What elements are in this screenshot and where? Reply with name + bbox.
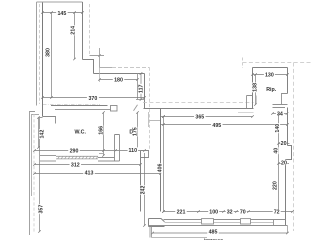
door pier left of corridor (115, 135, 120, 162)
wall left inner line (42, 2, 44, 117)
entrance threshold line (152, 237, 208, 239)
svg-text:166: 166 (98, 126, 104, 135)
svg-text:413: 413 (85, 171, 94, 177)
svg-text:180: 180 (114, 78, 123, 84)
svg-text:72: 72 (274, 210, 280, 216)
rip bottom wall double (273, 105, 288, 108)
dimension 20 lower (279, 163, 290, 165)
wc south wall hatch band top (56, 155, 98, 157)
dimension 312 (33, 163, 142, 166)
svg-text:142: 142 (39, 130, 45, 139)
wall mid vertical left line (137, 74, 139, 100)
dimension 214 (73, 11, 76, 60)
svg-text:20: 20 (281, 160, 287, 166)
dimension 142 (37, 116, 40, 149)
right wall foot extension (287, 226, 289, 234)
wall left dashed centerline (39, 4, 41, 104)
left wall lower second line (32, 115, 40, 197)
svg-text:Rip.: Rip. (266, 87, 277, 93)
right dashed boundary (293, 63, 295, 232)
wall left outer line (36, 2, 38, 106)
svg-text:406: 406 (157, 164, 163, 173)
wall bottom of upper-left room line1 (51, 105, 108, 107)
dimension 290 and 110 (33, 149, 146, 152)
wc south wall left top edge (40, 155, 56, 157)
rip left wall (252, 68, 254, 109)
svg-text:130: 130 (265, 72, 274, 78)
ingresso north line (150, 120, 161, 122)
main room top dashed wall (143, 102, 254, 104)
svg-text:380: 380 (46, 48, 52, 57)
window pier 1 (202, 219, 214, 224)
wall bottom of upper-left room dashdot (43, 104, 100, 106)
rip right wall (287, 68, 289, 94)
svg-text:40: 40 (274, 148, 280, 154)
faint line right of stub (256, 96, 258, 104)
dimension 242 (143, 153, 146, 227)
svg-text:175: 175 (133, 127, 139, 136)
rip notch (282, 94, 288, 105)
svg-text:370: 370 (88, 96, 97, 102)
ingresso wall small jog (141, 151, 149, 158)
wc south wall hatch band bottom (56, 158, 98, 160)
dimension 180 (98, 78, 139, 81)
svg-text:495: 495 (212, 123, 221, 129)
dimension 370 (41, 96, 146, 99)
wall right of upper-left room outer (82, 2, 84, 60)
svg-text:145: 145 (57, 11, 66, 17)
new wall hatching (58, 156, 99, 159)
dimension 140 40 220 line (277, 112, 280, 213)
bottom window band top line (164, 219, 286, 221)
dashed line right of mid wall (149, 68, 151, 151)
dimension 413 (33, 172, 162, 175)
dimension 175 (136, 111, 139, 150)
svg-text:365: 365 (195, 115, 204, 121)
svg-text:70: 70 (240, 210, 246, 216)
wall horizontal outer to mid wall (94, 73, 145, 75)
left wall lower step outer (30, 112, 36, 236)
svg-text:221: 221 (177, 210, 186, 216)
dimension 20 upper (279, 143, 290, 145)
bottom window band bottom line (149, 225, 288, 227)
rip top wall (253, 67, 288, 69)
svg-text:140: 140 (275, 124, 281, 133)
main room left wall (160, 109, 162, 212)
dimension 406 (162, 115, 165, 213)
svg-text:110: 110 (129, 148, 138, 154)
wc south wall right bottom edge (98, 160, 120, 162)
right wall nook (286, 146, 292, 160)
dimension 138 (254, 73, 257, 106)
corner stub left of rip (247, 96, 253, 109)
svg-text:W.C.: W.C. (74, 129, 86, 135)
wall bottom of upper-left room line2 (55, 109, 111, 111)
wall horizontal inner solid part (100, 67, 113, 69)
left wall lower inner line (40, 118, 43, 232)
right wall lower (285, 160, 287, 226)
wall top of upper-left room (37, 1, 83, 3)
wc door jamb line (99, 153, 104, 155)
wc south wall left bottom edge (40, 160, 56, 162)
svg-text:20: 20 (281, 141, 287, 147)
svg-text:220: 220 (273, 181, 279, 190)
wall right of upper-left room dashed (89, 4, 91, 56)
svg-text:485: 485 (209, 229, 218, 235)
wall mid bottom cap (136, 99, 145, 101)
rip dashed short left tick (242, 58, 244, 69)
bottom dimension line 221 100 32 70 72 (162, 210, 294, 213)
entrance door jambs (150, 227, 152, 238)
svg-text:214: 214 (70, 26, 76, 35)
dimension 145 (41, 11, 84, 14)
dimension 117 (140, 72, 143, 101)
wall mid vertical right line (144, 74, 146, 109)
svg-text:34: 34 (277, 112, 283, 118)
step dim tick (98, 54, 101, 57)
svg-text:117: 117 (139, 84, 145, 93)
dimension 130 (251, 73, 289, 76)
wall step outer (83, 60, 94, 74)
svg-text:138: 138 (252, 83, 258, 92)
svg-text:357: 357 (39, 205, 45, 214)
svg-text:100: 100 (209, 210, 218, 216)
dimension 180 extension (99, 68, 101, 83)
faint wall lower edge near rip (238, 112, 254, 114)
dimension 495 (161, 123, 289, 126)
dimension 34 (271, 112, 288, 115)
wall step inner (90, 48, 105, 68)
dimension 357 tick and label (38, 230, 41, 233)
pier between doors (111, 106, 118, 112)
ingresso wall left (140, 151, 142, 212)
rip room dashed boundary top (243, 62, 313, 64)
wc top-left counter (43, 117, 56, 124)
dimension 166 (102, 111, 105, 157)
main room top wall solid (144, 108, 254, 110)
dimension 365 (161, 115, 254, 118)
door D swing diagonal (134, 105, 138, 111)
svg-text:242: 242 (141, 186, 147, 195)
wc south wall right top edge (98, 157, 115, 159)
ingresso faint stub (148, 112, 150, 127)
window end divider (273, 220, 275, 226)
svg-text:32: 32 (227, 210, 233, 216)
left wall lower dashed centerline (33, 114, 35, 232)
bottom wall left corner block (149, 219, 165, 227)
dimension 485 (151, 232, 289, 235)
right wall below rip (287, 108, 289, 146)
svg-text:290: 290 (70, 148, 79, 154)
dimension 380 (50, 11, 53, 99)
svg-text:312: 312 (71, 162, 80, 168)
wall horizontal inner dashed part (112, 67, 150, 69)
window pier 2 (241, 219, 251, 224)
bottom window band mid line (165, 221, 274, 223)
